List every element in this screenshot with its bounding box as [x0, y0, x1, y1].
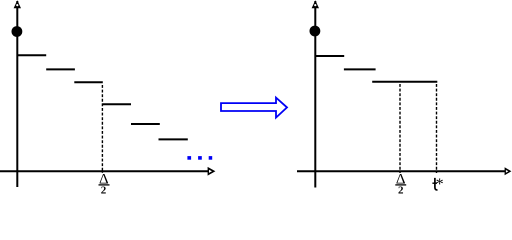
- label t* : t glyph: [435, 178, 438, 190]
- right x-axis: [297, 170, 505, 172]
- left step 5: [131, 123, 160, 125]
- right step 1: [315, 55, 344, 57]
- svg-text:2: 2: [398, 185, 404, 195]
- left step 2: [46, 68, 75, 70]
- left dot on axis: [12, 26, 23, 37]
- left step 6: [159, 138, 188, 140]
- left y-axis: [16, 1, 18, 187]
- right dot on axis: [310, 26, 321, 37]
- right y-axis arrowhead: [312, 0, 319, 8]
- svg-text:2: 2: [101, 185, 107, 195]
- right dashed line at t*: [436, 84, 438, 173]
- left step 1: [17, 54, 46, 56]
- left step 3: [74, 81, 103, 83]
- blue continuation dots: [187, 156, 191, 160]
- blue implication arrow: [221, 98, 287, 118]
- left label fraction bar: [99, 184, 110, 186]
- left step 4: [103, 103, 132, 105]
- left x-axis arrowhead: [208, 167, 216, 176]
- svg-text:*: *: [436, 176, 444, 193]
- left y-axis arrowhead: [14, 0, 21, 8]
- right dashed line at Delta/2: [399, 84, 401, 173]
- right x-axis arrowhead: [505, 167, 512, 175]
- left dashed line at Delta/2: [101, 85, 103, 173]
- left x-axis: [0, 170, 208, 172]
- right label fraction bar: [395, 184, 406, 186]
- right plateau step: [372, 81, 437, 83]
- right y-axis: [314, 1, 316, 188]
- right step 2: [344, 68, 376, 70]
